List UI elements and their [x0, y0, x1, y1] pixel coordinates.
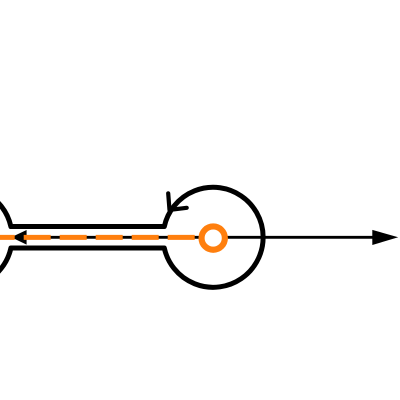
- node A: left arrowhead (points left): [11, 230, 26, 245]
- node B: right arrowhead (points right): [372, 230, 398, 245]
- node: direction arrowhead on small circle: [168, 193, 187, 210]
- wire: orange dashed line: [0, 235, 212, 240]
- node: orange ring marker (pole): [202, 226, 225, 249]
- contour: big circle arc + channel + small circle: [0, 187, 263, 287]
- wire: thin real-axis line: [11, 236, 374, 239]
